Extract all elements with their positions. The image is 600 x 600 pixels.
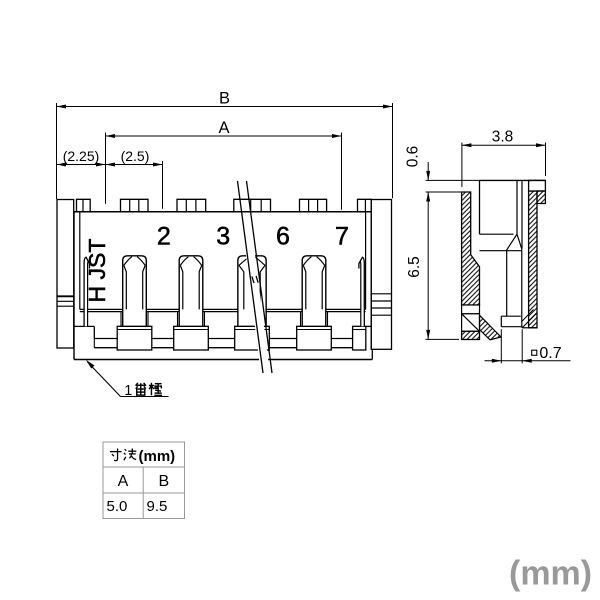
extension 3.8 left <box>461 143 463 188</box>
wire right flange groove <box>371 307 391 309</box>
svg-text:7: 7 <box>335 223 349 251</box>
side: cavity floor <box>480 250 522 252</box>
pin foot pedestal 3 <box>235 326 270 350</box>
svg-text:(mm): (mm) <box>139 448 176 465</box>
wire interior wall right <box>365 212 367 310</box>
side: lance right slope <box>517 234 522 249</box>
wire pedestal inner line <box>297 329 332 331</box>
side: right wall taper <box>522 313 537 328</box>
wire right flange groove <box>371 300 391 302</box>
wire right flange groove <box>371 293 391 295</box>
square symbol <box>532 350 537 355</box>
wire pedestal inner line <box>235 329 270 331</box>
svg-text:B: B <box>158 473 169 490</box>
wire slot top 4 <box>331 338 352 340</box>
extension line A / 2.25 / 2.5 <box>105 133 107 204</box>
table row line 2 <box>103 492 185 494</box>
tab group position 4-5 (across break) <box>234 199 271 211</box>
pin foot pedestal 4 <box>297 326 332 350</box>
wire left rim step <box>93 326 95 338</box>
dimension line A <box>106 135 342 137</box>
svg-text:6.5: 6.5 <box>406 256 423 278</box>
side: cavity right lower edge <box>521 249 523 328</box>
wire slot bottom 4 <box>331 347 352 349</box>
wire slot bottom 2 <box>208 347 234 349</box>
wire right flange groove <box>371 314 391 316</box>
dimension 0.6 (lip height) <box>427 162 429 180</box>
svg-text:3: 3 <box>216 223 230 251</box>
kanji 法 <box>124 448 137 460</box>
dimension 3.8 (top width) <box>462 144 546 146</box>
side: top edge <box>480 179 546 181</box>
extension 3.8 right <box>545 143 547 177</box>
contact half-pin 1 (left) <box>84 261 88 326</box>
side: pin funnel bottom <box>501 326 522 328</box>
arrowhead A left <box>106 134 116 138</box>
arrowhead 2.25 left <box>57 163 67 167</box>
side: inner slot line 2 <box>521 180 523 248</box>
break gap whiteout <box>241 214 270 372</box>
pin foot pedestal 2 <box>174 326 209 350</box>
side: pin funnel top <box>501 315 521 317</box>
contact pin 5 <box>302 256 326 326</box>
side: wall window <box>462 305 480 314</box>
tab group position 3 <box>177 199 206 211</box>
side: lance left slope <box>506 234 517 251</box>
extension line A right <box>341 133 343 210</box>
wire pedestal inner line <box>117 329 152 331</box>
arrowhead 2.5 left <box>106 163 116 167</box>
side: angled bottom wall (hatched) <box>480 315 502 340</box>
dimension line 2.5 <box>106 164 163 166</box>
wire housing top edge <box>74 211 371 213</box>
leader underline <box>121 396 169 398</box>
hidden pin dash 2 <box>256 276 258 283</box>
wire left slot top <box>94 338 117 340</box>
right mounting flange <box>371 200 391 350</box>
break line 1 <box>238 181 264 373</box>
side: wall foot (hatched) <box>462 331 480 339</box>
svg-text:3.8: 3.8 <box>492 129 514 146</box>
arrowhead A right <box>332 134 342 138</box>
wire cavity floor upper line <box>80 308 366 310</box>
wire flange groove 3 <box>57 305 74 307</box>
left mounting flange <box>57 200 74 349</box>
dimension 6.5 (body height) <box>427 192 429 339</box>
svg-text:6: 6 <box>276 223 290 251</box>
svg-text:(2.25): (2.25) <box>63 148 100 164</box>
kanji 寸 <box>110 448 122 460</box>
wire cavity wall left of pin <box>238 312 240 327</box>
wire slot top 3 <box>269 338 296 340</box>
extension line B left <box>56 103 58 199</box>
arrowhead B right <box>383 105 393 109</box>
wire left bottom rim <box>74 325 94 327</box>
side: cavity left edge <box>479 180 481 234</box>
wire slot top 2 <box>208 338 234 340</box>
break line 2 <box>247 181 273 373</box>
side: right wall bottom <box>522 327 537 329</box>
extension line 2.5 right <box>162 161 164 209</box>
svg-text:0.7: 0.7 <box>539 345 561 362</box>
wire left slot side <box>93 339 95 348</box>
svg-text:B: B <box>219 90 230 108</box>
wire flange groove 2 <box>57 300 74 302</box>
dimension line 0.7 <box>485 360 571 362</box>
wire slot bottom 1 <box>152 347 174 349</box>
contact pin 2 <box>123 256 147 326</box>
svg-text:H JST: H JST <box>84 239 110 303</box>
tab group position 7 <box>358 199 372 211</box>
side: wall diagonal <box>462 314 480 332</box>
wire cavity wall right of pin <box>327 312 329 327</box>
dimension line B <box>57 106 393 108</box>
wire slot top 1 <box>152 338 174 340</box>
table column line <box>142 467 144 519</box>
extension 0.7 right <box>521 329 523 363</box>
wire slot bottom 3 <box>269 347 296 349</box>
tab group position 2 <box>121 199 149 211</box>
tab group position 1 <box>77 199 91 211</box>
tab group position 6 <box>300 199 327 211</box>
wire cavity floor lower line <box>80 311 366 313</box>
side: wall lower parallelogram <box>462 314 480 332</box>
wire right bottom rim <box>366 325 372 327</box>
wire cavity wall right of pin <box>265 312 267 327</box>
pin foot pedestal 1 <box>117 326 152 350</box>
kanji 番 <box>135 383 146 395</box>
wire pedestal inner line <box>174 329 209 331</box>
side: right wall taper 2 <box>522 310 533 322</box>
wire housing left edge <box>73 212 75 360</box>
side: inner slot line 1 <box>516 180 518 234</box>
svg-text:(mm): (mm) <box>509 555 592 593</box>
wire interior wall left <box>79 212 81 310</box>
wire cavity wall right of pin <box>147 312 149 327</box>
wire cavity wall left of pin <box>120 312 122 327</box>
side: cavity step <box>480 233 514 235</box>
contact pin 3 <box>179 256 203 326</box>
wire cavity wall left of pin <box>300 312 302 327</box>
pin foot pedestal 5 <box>353 326 366 350</box>
svg-text:A: A <box>118 473 129 490</box>
wire bottom outer edge <box>74 359 372 361</box>
wire left slot bottom <box>94 347 117 349</box>
svg-text:(2.5): (2.5) <box>121 148 150 164</box>
wire flange groove 1 <box>57 295 74 297</box>
wire pedestal inner line <box>353 329 366 331</box>
svg-text:1: 1 <box>124 383 132 399</box>
wire cavity wall right of pin <box>204 312 206 327</box>
wire housing right edge <box>370 212 372 350</box>
svg-text:2: 2 <box>157 223 171 251</box>
contact half-pin 7 (right) <box>361 261 365 326</box>
kanji 極 <box>149 383 162 396</box>
svg-text:9.5: 9.5 <box>147 498 168 515</box>
side: mounting ear (hatched) <box>537 191 545 204</box>
leader line <box>88 362 121 397</box>
contact pin 4 <box>238 256 266 326</box>
wire cavity wall left of pin <box>177 312 179 327</box>
arrowhead 2.25 right <box>96 163 106 167</box>
table outer border <box>103 442 185 519</box>
arrowhead 2.5 right <box>153 163 163 167</box>
side: left wall (hatched section) <box>462 192 480 305</box>
dimension line 2.25 <box>57 164 106 166</box>
hidden pin dash 1 <box>252 276 254 283</box>
side: right wall (hatched section) <box>529 191 537 328</box>
extension line B right <box>392 103 394 198</box>
side: pin edge <box>506 251 508 317</box>
extension 0.6 bottom / 6.5 top <box>426 191 471 193</box>
arrowhead B left <box>57 105 67 109</box>
side: mounting ear top <box>529 180 546 191</box>
extension 6.5 bottom <box>426 338 459 340</box>
extension 0.6 top (part top) <box>426 179 480 181</box>
extension 0.7 left <box>500 329 502 363</box>
leader arrowhead <box>84 358 94 368</box>
svg-text:5.0: 5.0 <box>107 498 128 515</box>
svg-text:A: A <box>218 119 229 137</box>
wire bottom right step <box>371 349 373 359</box>
table row line 1 <box>103 466 185 468</box>
svg-text:0.6: 0.6 <box>405 146 422 168</box>
side: pin funnel left <box>500 316 502 327</box>
